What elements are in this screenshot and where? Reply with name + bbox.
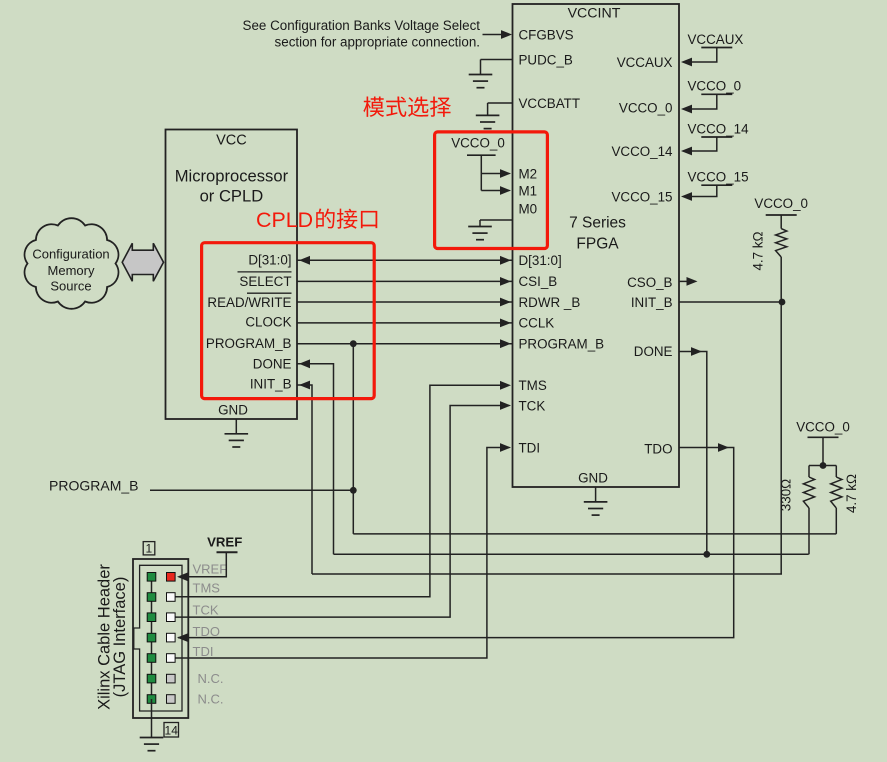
wire VCCO_0 to M2/M1 <box>480 155 482 190</box>
wire PROGRAM_B label line <box>150 489 353 491</box>
svg-text:DONE: DONE <box>634 344 673 359</box>
svg-text:INIT_B: INIT_B <box>250 377 292 392</box>
wire READ/WRITE to RDWR_B <box>297 301 513 303</box>
JTAG even pin 14 (N.C.) <box>167 695 176 704</box>
wire TMS run <box>175 385 503 596</box>
microprocessor U2 box (Microprocessor or CPLD) <box>166 130 298 420</box>
svg-text:VCCINT: VCCINT <box>568 6 621 22</box>
wire VREF to pin 2 <box>186 552 226 577</box>
JTAG even pin 8 (TDO) <box>167 633 176 642</box>
JTAG odd pin 5 <box>147 613 156 622</box>
svg-text:N.C.: N.C. <box>198 671 224 686</box>
wire INIT_B to CPLD <box>297 385 312 574</box>
svg-text:CSO_B: CSO_B <box>627 275 672 290</box>
wire VCCBATT <box>488 102 513 104</box>
svg-text:M1: M1 <box>519 183 538 198</box>
configuration memory source cloud <box>25 218 119 309</box>
svg-text:TDO: TDO <box>193 624 220 639</box>
svg-text:4.7 kΩ: 4.7 kΩ <box>844 474 859 513</box>
svg-text:M0: M0 <box>519 201 538 216</box>
svg-text:VCCO_0: VCCO_0 <box>754 196 808 211</box>
svg-text:TDI: TDI <box>519 440 541 455</box>
wire: note to CFGBVS <box>483 34 505 36</box>
wire CLOCK to CCLK <box>297 322 513 324</box>
svg-text:PROGRAM_B: PROGRAM_B <box>519 337 605 352</box>
JTAG even pin 10 (TDI) <box>167 654 176 663</box>
svg-text:TDO: TDO <box>644 441 672 456</box>
wire CSO_B stub <box>679 280 688 282</box>
wire resistor to INIT_B run <box>780 257 782 574</box>
wire VCCO_0 down <box>822 437 824 465</box>
resistor R1 4.7 kOhm (INIT_B pullup) <box>776 229 787 257</box>
svg-text:TCK: TCK <box>193 603 219 618</box>
annotation box CPLD interface (red) <box>202 243 375 399</box>
resistor R3 4.7 kOhm (PROGRAM_B pullup) <box>835 466 837 478</box>
bidirectional data arrow cloud to CPLD <box>122 243 163 281</box>
JTAG odd pin 11 <box>147 674 156 683</box>
wire INIT_B to pullup <box>679 301 782 303</box>
svg-text:M2: M2 <box>519 166 538 181</box>
ground on VCCBATT <box>487 103 489 115</box>
svg-text:DONE: DONE <box>253 357 292 372</box>
resistor R2 330 Ohm (DONE pullup) <box>808 466 810 478</box>
svg-text:TDI: TDI <box>193 644 214 659</box>
svg-text:N.C.: N.C. <box>198 692 224 707</box>
svg-text:GND: GND <box>578 471 608 486</box>
junction DONE/FPGA <box>703 551 710 558</box>
svg-text:VREF: VREF <box>193 561 228 576</box>
svg-text:FPGA: FPGA <box>576 236 619 253</box>
svg-text:GND: GND <box>218 403 248 418</box>
wire TDI run <box>175 448 503 659</box>
svg-text:Microprocessor: Microprocessor <box>175 167 289 186</box>
JTAG even pin 4 (TMS) <box>167 593 176 602</box>
svg-text:4.7 kΩ: 4.7 kΩ <box>751 231 766 270</box>
annotation text mode select (Chinese) <box>363 96 451 116</box>
svg-text:VCC: VCC <box>216 133 247 149</box>
ground on M0 <box>479 220 481 227</box>
ground under FPGA GND pin <box>595 487 597 502</box>
svg-text:Configuration: Configuration <box>32 246 109 261</box>
wire DONE bottom run <box>334 553 809 555</box>
svg-text:VCCO_0: VCCO_0 <box>619 100 673 115</box>
wire DONE from FPGA <box>679 352 707 555</box>
wire M0 to ground <box>480 219 513 221</box>
JTAG odd pin 3 <box>147 593 156 602</box>
overline on WRITE <box>247 292 292 294</box>
svg-text:CLOCK: CLOCK <box>245 315 291 330</box>
pin 1 label box <box>143 542 155 555</box>
JTAG cable header inner box with key notch <box>134 565 182 711</box>
svg-text:VCCAUX: VCCAUX <box>688 32 744 47</box>
junction INIT_B pullup <box>779 299 786 306</box>
junction PROGRAM_B label line <box>350 487 357 494</box>
junction pullup pair <box>820 462 827 469</box>
wire PROGRAM_B bottom run <box>353 533 836 535</box>
wire SELECT to CSI_B <box>297 280 513 282</box>
svg-text:section for appropriate connec: section for appropriate connection. <box>275 35 480 50</box>
ground under CPLD GND pin <box>235 419 237 434</box>
FPGA U1 box (7 Series FPGA) <box>513 4 680 487</box>
wire TCK run <box>175 406 503 618</box>
svg-text:330Ω: 330Ω <box>779 479 794 511</box>
svg-text:CCLK: CCLK <box>519 316 555 331</box>
annotation box mode select (red) <box>435 132 548 249</box>
svg-text:1: 1 <box>146 541 153 555</box>
wire PROGRAM_B CPLD to FPGA <box>297 343 513 345</box>
svg-text:VCCBATT: VCCBATT <box>519 96 581 111</box>
svg-text:VCCO_14: VCCO_14 <box>611 144 673 159</box>
pin 14 label box <box>164 723 179 738</box>
JTAG even pin 2 (VREF) <box>167 573 176 582</box>
wire pullup pair top bar <box>809 465 836 467</box>
JTAG odd pin 13 <box>147 695 156 704</box>
svg-text:CPLD: CPLD <box>256 208 313 232</box>
svg-text:READ/WRITE: READ/WRITE <box>207 295 291 310</box>
JTAG even pin 6 (TCK) <box>167 613 176 622</box>
svg-text:VREF: VREF <box>207 535 242 550</box>
svg-text:D[31:0]: D[31:0] <box>519 253 562 268</box>
svg-text:VCCO_15: VCCO_15 <box>688 170 749 185</box>
junction PROGRAM_B <box>350 340 357 347</box>
svg-text:Source: Source <box>50 278 91 293</box>
wire connecting odd pins (GND bus) <box>151 577 153 699</box>
wire PROGRAM_B net vertical <box>352 344 354 534</box>
svg-text:RDWR _B: RDWR _B <box>519 295 581 310</box>
JTAG odd pin 9 <box>147 654 156 663</box>
svg-text:VCCAUX: VCCAUX <box>617 55 673 70</box>
svg-text:VCCO_0: VCCO_0 <box>688 79 742 94</box>
svg-text:INIT_B: INIT_B <box>631 295 673 310</box>
overline on SELECT <box>238 271 292 273</box>
svg-text:TMS: TMS <box>519 378 547 393</box>
svg-text:PROGRAM_B: PROGRAM_B <box>206 336 292 351</box>
wire INIT_B bottom run <box>312 573 782 575</box>
wire D[31:0] bidirectional <box>297 259 513 261</box>
JTAG odd pin 7 <box>147 633 156 642</box>
svg-text:14: 14 <box>165 723 179 737</box>
svg-text:See Configuration Banks Voltag: See Configuration Banks Voltage Select <box>243 18 481 33</box>
svg-text:CFGBVS: CFGBVS <box>519 27 574 42</box>
svg-text:(JTAG Interface): (JTAG Interface) <box>111 577 129 698</box>
JTAG odd pin 1 <box>147 573 156 582</box>
wire VCCO_0 to resistor <box>780 215 782 229</box>
svg-text:PROGRAM_B: PROGRAM_B <box>49 478 138 494</box>
ground on PUDC_B <box>480 60 482 75</box>
svg-text:Memory: Memory <box>48 263 95 278</box>
wire TDO run <box>178 448 734 638</box>
svg-text:TMS: TMS <box>193 580 221 595</box>
svg-text:VCCO_0: VCCO_0 <box>796 420 850 435</box>
svg-text:or CPLD: or CPLD <box>200 187 264 206</box>
JTAG cable header outer box <box>133 559 188 718</box>
JTAG even pin 12 (N.C.) <box>167 674 176 683</box>
wire PUDC_B <box>481 59 513 61</box>
svg-text:SELECT: SELECT <box>239 274 291 289</box>
svg-text:TCK: TCK <box>519 398 546 413</box>
svg-text:CSI_B: CSI_B <box>519 274 558 289</box>
svg-text:VCCO_15: VCCO_15 <box>611 189 672 204</box>
svg-text:D[31:0]: D[31:0] <box>248 252 291 267</box>
svg-text:7 Series: 7 Series <box>569 215 626 232</box>
wire DONE to CPLD <box>297 364 334 555</box>
ground under JTAG header <box>151 699 153 738</box>
svg-text:VCCO_14: VCCO_14 <box>688 121 750 136</box>
svg-text:VCCO_0: VCCO_0 <box>451 136 505 151</box>
svg-text:PUDC_B: PUDC_B <box>519 52 573 67</box>
